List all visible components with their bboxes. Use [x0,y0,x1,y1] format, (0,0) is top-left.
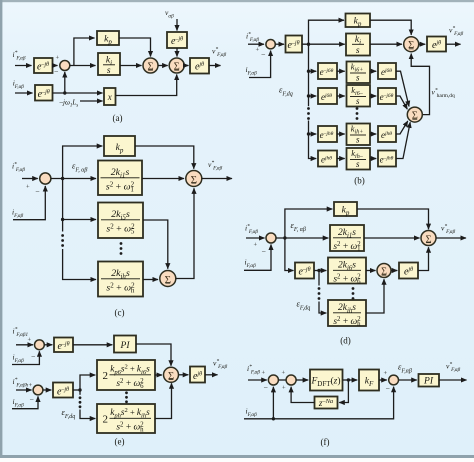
svg-text:–: – [263,384,268,392]
svg-text:2: 2 [103,413,109,425]
svg-text:–: – [261,247,266,255]
svg-text:s: s [356,46,360,56]
svg-text:+: + [262,370,266,377]
svg-text:PI: PI [120,341,131,351]
svg-text:Σ: Σ [174,61,180,72]
svg-text:(e): (e) [115,437,125,447]
svg-text:+: + [56,55,60,62]
svg-text:s: s [356,96,360,106]
svg-text:–: – [385,384,390,392]
svg-text:+: + [254,242,258,249]
svg-text:Σ: Σ [425,234,431,245]
svg-text:–: – [29,396,34,404]
svg-text:+: + [26,184,30,191]
svg-text:Σ: Σ [191,174,197,186]
svg-text:+: + [28,337,32,344]
svg-text:x: x [107,92,112,102]
svg-text:Σ: Σ [168,371,174,382]
svg-text:Σ: Σ [165,274,171,286]
svg-text:–: – [31,353,36,361]
svg-text:+: + [384,370,388,377]
svg-text:–: – [35,188,40,196]
svg-text:s: s [356,135,360,145]
svg-text:(a): (a) [113,113,123,123]
svg-text:(f): (f) [321,437,330,447]
svg-text:Σ: Σ [381,266,387,277]
svg-text:s: s [356,159,360,169]
svg-text:2: 2 [103,370,109,382]
svg-text:–: – [54,68,59,76]
svg-text:(c): (c) [115,308,125,318]
svg-text:s: s [107,66,111,76]
svg-text:(d): (d) [340,336,351,346]
svg-text:+: + [256,47,260,54]
svg-text:–: – [261,51,266,59]
svg-text:(b): (b) [354,176,365,186]
svg-text:+: + [282,385,286,392]
svg-text:Σ: Σ [412,110,418,121]
svg-text:+: + [282,370,286,377]
svg-text:Σ: Σ [147,61,153,72]
svg-text:Σ: Σ [408,40,414,51]
svg-text:s: s [356,73,360,83]
svg-text:+: + [29,382,33,389]
svg-text:PI: PI [423,376,434,386]
